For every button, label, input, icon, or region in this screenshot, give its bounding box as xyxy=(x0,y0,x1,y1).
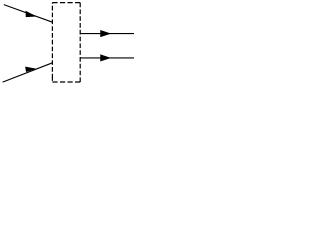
background xyxy=(0,0,134,84)
wire input bottom xyxy=(3,63,53,82)
dashed block U1 top edge xyxy=(52,2,80,4)
arrowhead input bottom xyxy=(26,67,36,71)
dashed block U1 left edge xyxy=(51,3,53,81)
dashed block U1 left edge last dash xyxy=(51,78,53,80)
wire output top xyxy=(80,33,134,35)
dashed block U1 bottom edge xyxy=(52,81,80,83)
arrowhead output bottom xyxy=(101,55,111,61)
wire output bottom xyxy=(80,57,134,59)
arrowhead output top xyxy=(101,31,111,37)
arrowhead input top xyxy=(26,11,36,16)
wire input top xyxy=(4,5,53,23)
dashed block U1 right edge xyxy=(79,3,81,82)
